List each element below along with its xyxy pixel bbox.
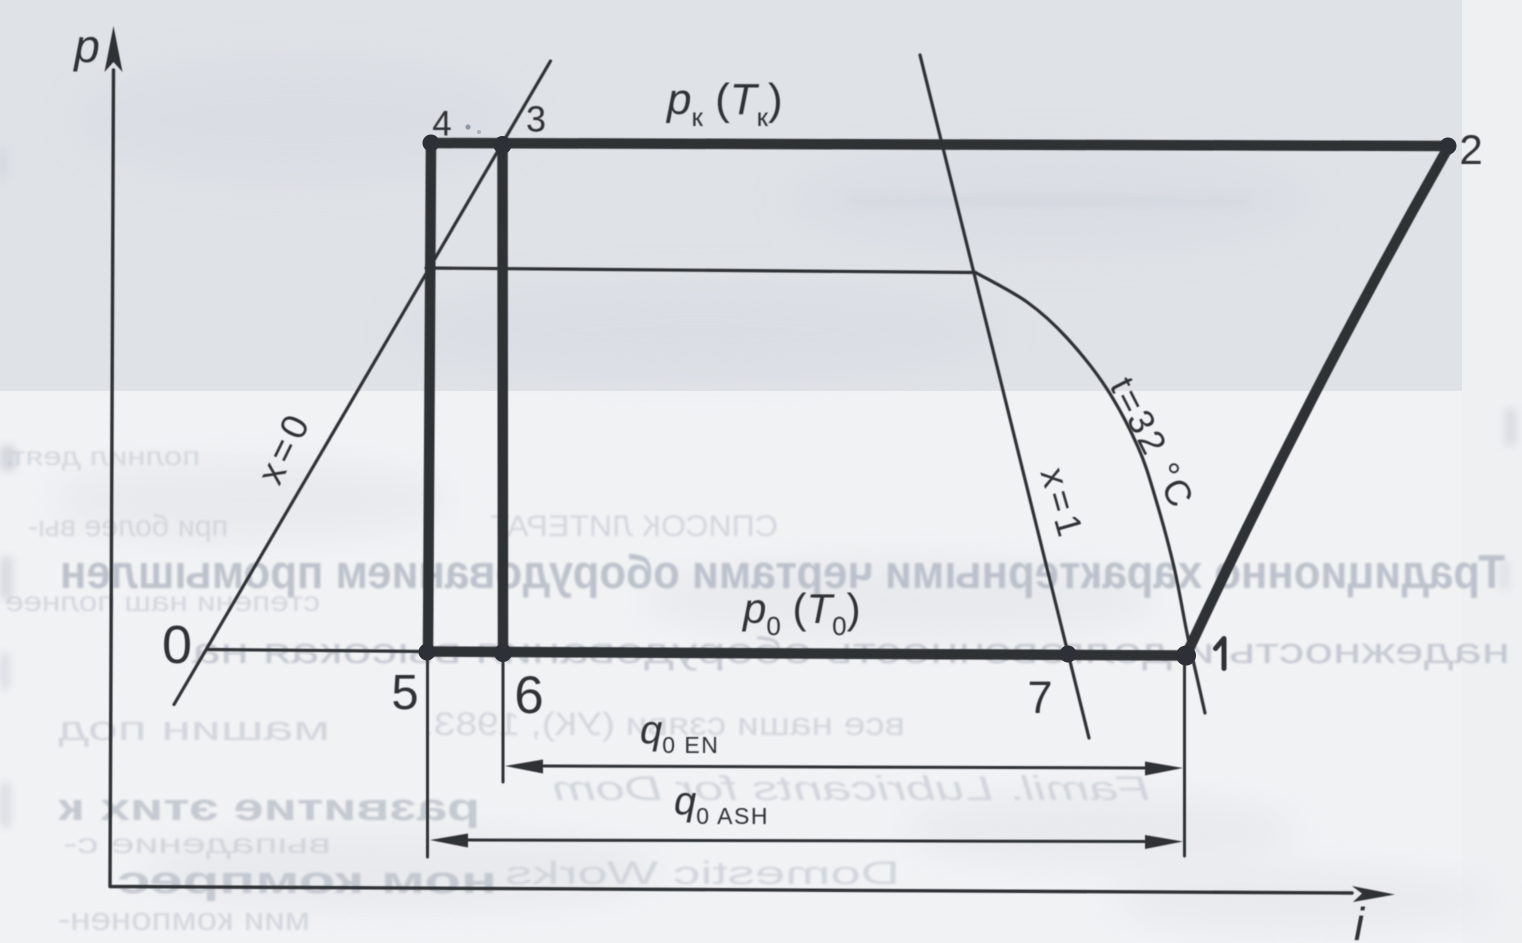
svg-text:ном компрес: ном компрес bbox=[117, 860, 497, 902]
svg-text:p: p bbox=[72, 20, 100, 72]
svg-text:i: i bbox=[1354, 898, 1366, 943]
svg-text:6: 6 bbox=[514, 666, 543, 725]
svg-text:степени наш полнее: степени наш полнее bbox=[5, 586, 320, 617]
svg-text:5: 5 bbox=[391, 666, 418, 720]
svg-text:выпадение с-: выпадение с- bbox=[63, 828, 331, 859]
svg-text:x=1: x=1 bbox=[1033, 463, 1093, 545]
svg-text:Famil. Lubricants for Dom: Famil. Lubricants for Dom bbox=[552, 770, 1150, 808]
svg-text:0: 0 bbox=[162, 615, 192, 675]
svg-text:t=32 °C: t=32 °C bbox=[1102, 370, 1203, 516]
svg-text:машин под: машин под bbox=[58, 710, 330, 748]
svg-text:СПИСОК ЛИТЕРАТ: СПИСОК ЛИТЕРАТ bbox=[490, 510, 778, 543]
svg-text:7: 7 bbox=[1027, 672, 1052, 723]
svg-text:2: 2 bbox=[1459, 126, 1482, 173]
svg-text:Domestic Works: Domestic Works bbox=[505, 855, 900, 891]
svg-text:при более вы-: при более вы- bbox=[28, 510, 228, 543]
svg-text:полнил деят.: полнил деят. bbox=[5, 441, 200, 471]
svg-text:развитие этих к: развитие этих к bbox=[57, 787, 480, 829]
svg-text:мии компонен-: мии компонен- bbox=[58, 901, 310, 937]
svg-text:3: 3 bbox=[526, 99, 546, 140]
svg-text:4: 4 bbox=[432, 105, 451, 144]
